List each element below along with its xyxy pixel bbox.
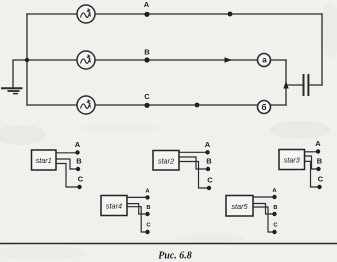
star1 wires <box>56 153 80 187</box>
star4 wires <box>127 197 148 232</box>
ground <box>1 88 23 93</box>
node C tap <box>144 103 149 108</box>
box star4 <box>101 196 127 216</box>
junction neutral <box>25 58 29 62</box>
box star5 <box>226 196 253 217</box>
star3 wires <box>305 152 320 187</box>
source EC <box>77 96 95 114</box>
svg-text:star4: star4 <box>106 202 122 211</box>
svg-text:C: C <box>144 92 150 101</box>
svg-text:A: A <box>315 139 321 148</box>
svg-text:B: B <box>317 157 323 166</box>
wire right bus B-C <box>285 60 287 105</box>
svg-text:A: A <box>144 0 150 9</box>
svg-text:B: B <box>206 157 212 166</box>
wire capacitor branch <box>286 84 322 86</box>
svg-text:A: A <box>205 140 211 149</box>
svg-text:B: B <box>76 157 82 166</box>
star5 terminals <box>272 195 276 234</box>
wire phase B horizontal <box>27 59 286 61</box>
wire ground branch <box>13 60 27 88</box>
svg-text:б: б <box>262 103 267 112</box>
star1 terminals <box>75 150 81 189</box>
junction on B (arrow) <box>225 57 233 62</box>
wire phase C horizontal <box>27 104 286 106</box>
rule line <box>0 243 337 245</box>
lamp a on phase B <box>258 54 271 67</box>
star5 wires <box>253 197 275 232</box>
svg-text:star5: star5 <box>231 202 248 211</box>
wire right vertical from A to capacitor <box>321 14 323 85</box>
svg-text:C: C <box>78 175 84 184</box>
svg-text:Рис. 6.8: Рис. 6.8 <box>158 250 192 261</box>
svg-text:B: B <box>144 48 150 57</box>
junction on A <box>228 12 233 17</box>
svg-text:a: a <box>262 56 267 65</box>
junction on C <box>195 103 200 108</box>
source EA <box>77 5 95 23</box>
lamp b on phase C <box>258 101 271 114</box>
svg-text:A: A <box>75 140 81 149</box>
junction capacitor bus <box>283 81 288 89</box>
source EB <box>77 51 95 69</box>
svg-text:star3: star3 <box>284 156 300 165</box>
star2 terminals <box>205 150 211 190</box>
svg-text:B: B <box>273 205 277 211</box>
svg-text:star2: star2 <box>158 157 174 166</box>
svg-text:B: B <box>146 205 150 211</box>
box star1 <box>32 150 57 170</box>
star4 terminals <box>145 195 149 234</box>
node B tap <box>144 57 149 62</box>
box star3 <box>279 150 305 170</box>
capacitor C <box>304 74 309 96</box>
svg-text:star1: star1 <box>36 156 52 165</box>
svg-text:C: C <box>318 175 324 184</box>
star2 wires <box>179 152 209 188</box>
svg-text:C: C <box>207 176 213 185</box>
wire left neutral bus <box>26 14 28 105</box>
box star2 <box>153 151 179 171</box>
star3 terminals <box>316 149 322 189</box>
node A tap <box>144 12 149 17</box>
wire phase A horizontal <box>27 13 322 15</box>
